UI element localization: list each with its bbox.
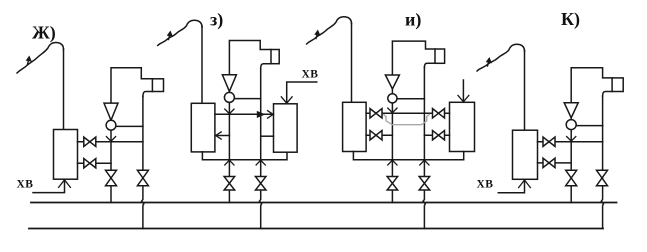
grey heat exchanger ghost of group и xyxy=(384,115,430,125)
wire: float to right pipe of group К xyxy=(576,125,602,127)
arrow into tank К xyxy=(519,180,531,188)
wire: drain header of group з xyxy=(202,152,287,160)
up arrow on v2 at drain of group з xyxy=(256,160,265,165)
wire: lower main pipe xyxy=(29,228,603,230)
wire: row1 of group и xyxy=(366,112,449,114)
wire: riser of group Ж xyxy=(63,49,65,130)
draw-off faucet of group Ж xyxy=(17,43,64,74)
valve on v2 drop of group К xyxy=(597,170,608,178)
gas column of group Ж xyxy=(111,68,152,103)
valve on v2 drop of group з xyxy=(255,177,266,184)
wire: left pipe v1 of group Ж xyxy=(110,120,112,202)
wire: row2 left stub of group з xyxy=(215,135,229,137)
funnel and float of group и xyxy=(385,75,399,89)
valve row1 of group К xyxy=(543,137,549,146)
gas column of group К xyxy=(571,68,612,103)
funnel and float of group К xyxy=(564,103,578,118)
arrow into right tank of group и xyxy=(458,95,469,101)
valve on v1 drop of group з xyxy=(224,177,235,184)
wire: row2 of group К xyxy=(538,162,572,164)
tank right of group з xyxy=(274,104,298,152)
valve row1 of group Ж xyxy=(84,137,90,146)
svg-text:Ж): Ж) xyxy=(32,23,56,44)
wire: float to right pipe of group и xyxy=(397,98,424,100)
gas column of group и xyxy=(392,41,435,75)
tank of group К xyxy=(513,130,538,179)
svg-text:ХВ: ХВ xyxy=(477,179,494,191)
wire: right pipe v2 of group и xyxy=(423,68,425,229)
wire: cold water inlet of group К xyxy=(498,181,524,193)
funnel and float of group Ж xyxy=(104,103,118,120)
valve on v1 drop of group Ж xyxy=(106,170,117,178)
wire: upper main pipe xyxy=(31,202,617,204)
draw-off faucet of group К xyxy=(477,44,525,71)
svg-text:и): и) xyxy=(405,10,421,31)
draw-off faucet of group з xyxy=(158,20,202,45)
wire: riser of group з xyxy=(201,26,203,103)
wire: right pipe v2 of group Ж xyxy=(142,97,144,229)
arrow into right tank of group з xyxy=(281,97,292,103)
arrow into left tank of group з xyxy=(216,132,222,139)
wire: riser of group и xyxy=(351,23,353,102)
valve on v1 drop of group К xyxy=(566,170,577,178)
wire: row2 of group Ж xyxy=(78,162,112,164)
wire: left pipe v1 of group з xyxy=(228,91,230,202)
flow arrow down at v1 junction of group з xyxy=(225,109,234,114)
tank of group Ж xyxy=(54,130,78,180)
wire: row2 right stub of group и xyxy=(424,134,449,136)
wire: cold water inlet of group з xyxy=(287,82,317,103)
wire: riser of group К xyxy=(524,51,526,131)
valve row1 left of group и xyxy=(370,109,376,118)
wire: row1 of group з xyxy=(215,113,274,115)
wire: right pipe v2 of group К xyxy=(601,96,603,229)
solid flow arrow on row1 of group з xyxy=(257,112,264,118)
wire: row1 of group Ж xyxy=(78,141,143,143)
up arrow on v2 at drain of group и xyxy=(420,160,429,165)
up arrow on v1 at drain of group и xyxy=(388,160,397,165)
svg-text:ХВ: ХВ xyxy=(302,69,319,81)
tank left of group и xyxy=(343,102,367,151)
flow arrow at v1 junction of group К xyxy=(567,137,576,142)
open arrow into right tank of group з xyxy=(268,111,274,118)
valve row2 left of group и xyxy=(370,131,376,140)
valve row1 right of group и xyxy=(433,109,439,118)
wire: row2 right stub of group з xyxy=(261,135,274,137)
valve row2 of group Ж xyxy=(84,159,90,168)
flow arrow at v1 junction of group Ж xyxy=(106,137,115,142)
wire: left pipe v1 of group К xyxy=(570,118,572,203)
valve on v1 drop of group и xyxy=(387,177,398,184)
wire: float to right pipe of group Ж xyxy=(116,125,143,127)
svg-text:К): К) xyxy=(561,9,580,30)
tank left of group з xyxy=(191,103,215,152)
svg-text:ХВ: ХВ xyxy=(17,179,34,191)
wire: left pipe v1 of group и xyxy=(391,89,393,203)
wire: row2 left stub of group и xyxy=(366,134,392,136)
valve on v2 drop of group и xyxy=(419,177,430,184)
arrow into tank Ж xyxy=(59,180,71,188)
draw-off faucet of group и xyxy=(307,17,352,44)
wire: drain header of group и xyxy=(353,152,463,160)
wire: float to right pipe of group з xyxy=(234,98,260,100)
wire: row1 of group К xyxy=(538,141,603,143)
valve on v2 drop of group Ж xyxy=(137,170,148,178)
svg-text:з): з) xyxy=(210,10,223,31)
valve row2 of group К xyxy=(543,158,549,167)
wire: cold water inlet of group Ж xyxy=(33,181,65,193)
wire: right pipe v2 of group з xyxy=(259,69,261,229)
gas column of group з xyxy=(229,41,271,75)
wire: cold water inlet of group и xyxy=(462,80,464,101)
valve row2 right of group и xyxy=(433,131,439,140)
tank right of group и xyxy=(450,102,475,151)
up arrow on v1 at drain of group з xyxy=(225,160,234,165)
flow arrow down at v1 junction of group и xyxy=(388,108,397,113)
funnel and float of group з xyxy=(222,75,236,92)
